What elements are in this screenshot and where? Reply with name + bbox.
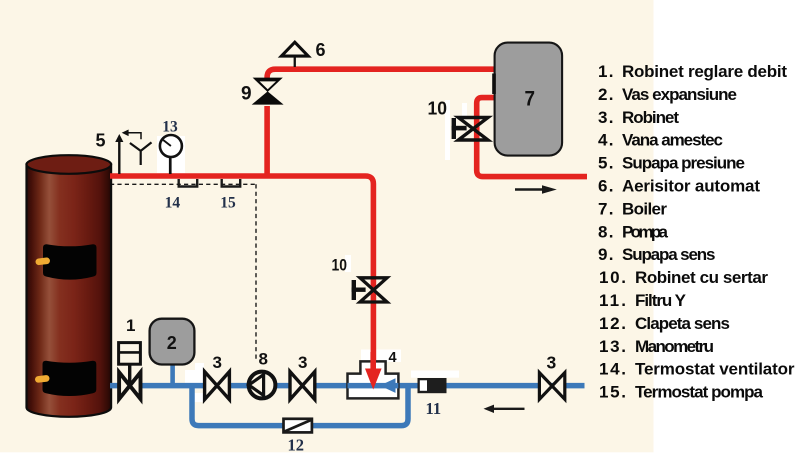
svg-text:7.: 7.: [598, 199, 614, 218]
white artifact patch behind label 4: [361, 350, 401, 363]
svg-text:3: 3: [298, 353, 307, 372]
white artifact patch near upper valve 10: [445, 100, 450, 160]
svg-text:11: 11: [426, 399, 442, 418]
svg-text:4.: 4.: [598, 131, 614, 150]
svg-text:Manometru: Manometru: [635, 337, 714, 356]
thermostat 14 bracket: [179, 179, 198, 187]
svg-text:Vana amestec: Vana amestec: [622, 131, 723, 150]
legend list: [598, 62, 795, 402]
svg-text:2: 2: [167, 333, 177, 353]
svg-text:Robinet cu sertar: Robinet cu sertar: [635, 268, 768, 287]
svg-text:Supapa presiune: Supapa presiune: [622, 154, 745, 173]
flow arrow under boiler 7: [515, 188, 545, 191]
thermostat 15 bracket: [222, 179, 241, 187]
svg-text:10: 10: [428, 99, 448, 119]
svg-text:10: 10: [332, 256, 348, 275]
svg-text:Filtru Y: Filtru Y: [635, 291, 687, 310]
pump 8 (pompa): [249, 372, 276, 399]
dashed thermostat line horizontal: [110, 183, 256, 185]
manometer 13: [160, 135, 182, 174]
gate valve 10 upper (robinet cu sertar): [452, 118, 488, 141]
boiler lower door: [43, 361, 97, 396]
svg-text:Boiler: Boiler: [622, 199, 667, 218]
flow arrow bottom right: [492, 408, 525, 410]
svg-text:12: 12: [288, 436, 305, 455]
valve 3 middle (robinet): [290, 372, 315, 400]
svg-text:6: 6: [316, 40, 326, 60]
svg-text:Pompa: Pompa: [622, 222, 669, 241]
safety valve 5 symbol: [115, 130, 141, 175]
red pipe from valve 9 to boiler 7: [267, 69, 494, 80]
boiler upper door handle: [35, 257, 50, 265]
svg-text:Termostat pompa: Termostat pompa: [635, 383, 764, 402]
svg-text:Clapeta sens: Clapeta sens: [635, 314, 730, 333]
white artifact patch behind manometer: [157, 136, 185, 173]
valve 3 right (robinet): [539, 373, 564, 400]
blue arrowhead in mixing valve: [380, 378, 396, 393]
svg-text:Vas expansiune: Vas expansiune: [622, 85, 737, 104]
svg-text:9: 9: [241, 84, 252, 105]
blue bypass loop with clapeta 12: [192, 386, 408, 426]
blue stem from expansion vessel 2: [170, 364, 175, 384]
svg-text:7: 7: [525, 88, 536, 111]
svg-text:14.: 14.: [599, 360, 626, 379]
air vent 6 (aerisitor automat): [281, 42, 308, 67]
svg-text:1.: 1.: [598, 62, 614, 81]
svg-text:5.: 5.: [598, 154, 614, 173]
svg-text:15: 15: [220, 194, 236, 211]
regulating valve 1 bowtie: [119, 372, 140, 399]
svg-text:Robinet: Robinet: [622, 108, 679, 127]
valve 3 left (robinet): [205, 372, 230, 400]
svg-text:3: 3: [547, 353, 557, 373]
Y filter 11 (filtru Y): [411, 371, 459, 394]
red riser to check valve 9: [264, 106, 270, 177]
svg-text:15.: 15.: [599, 383, 626, 402]
svg-text:2.: 2.: [598, 85, 614, 104]
svg-text:1: 1: [126, 316, 135, 335]
red loop from boiler 7 through gate valve 10: [477, 98, 587, 177]
svg-text:13: 13: [162, 118, 178, 135]
svg-text:8.: 8.: [598, 222, 614, 241]
expansion vessel 2: [150, 319, 195, 365]
svg-text:10.: 10.: [599, 268, 626, 287]
red drop pipe and arrow into mixing valve: [370, 352, 376, 370]
svg-text:Aerisitor automat: Aerisitor automat: [622, 177, 760, 196]
blue return pipe main: [110, 383, 585, 389]
boiler lower door handle: [35, 375, 50, 383]
svg-text:Robinet reglare debit: Robinet reglare debit: [622, 62, 787, 81]
boiler 7 inlet fitting: [492, 74, 496, 95]
svg-text:3: 3: [213, 353, 222, 372]
svg-text:3.: 3.: [598, 108, 614, 127]
svg-text:6.: 6.: [598, 177, 614, 196]
svg-text:11.: 11.: [599, 291, 626, 310]
svg-text:14: 14: [165, 194, 181, 211]
gate valve 10 lower (robinet cu sertar): [352, 278, 387, 302]
red supply pipe from boiler with corner down to mixing valve: [110, 176, 373, 371]
relief outlet Y symbol: [130, 142, 152, 165]
hot water boiler 7: [495, 43, 562, 156]
diagram cream background panel: [0, 0, 654, 452]
svg-text:8: 8: [259, 350, 268, 369]
regulating valve 1 body: [119, 343, 141, 386]
white artifact patch near vessel 2 right: [185, 370, 205, 383]
check flap 12 (clapeta sens): [284, 419, 312, 433]
blue pipe inside mixing valve: [348, 383, 399, 389]
svg-text:12.: 12.: [599, 314, 626, 333]
svg-text:5: 5: [96, 131, 106, 151]
svg-text:4: 4: [389, 350, 397, 366]
dashed thermostat line vertical: [255, 184, 257, 359]
mixing valve 4 body (vana amestec): [348, 361, 399, 398]
check valve 9 (supapa sens): [252, 78, 284, 105]
white artifact patch right of lower label 10: [345, 255, 351, 272]
svg-text:Termostat ventilator: Termostat ventilator: [635, 360, 795, 379]
boiler upper door: [43, 244, 97, 279]
svg-text:9.: 9.: [598, 245, 614, 264]
svg-text:Supapa sens: Supapa sens: [622, 245, 716, 264]
svg-text:13.: 13.: [599, 337, 626, 356]
